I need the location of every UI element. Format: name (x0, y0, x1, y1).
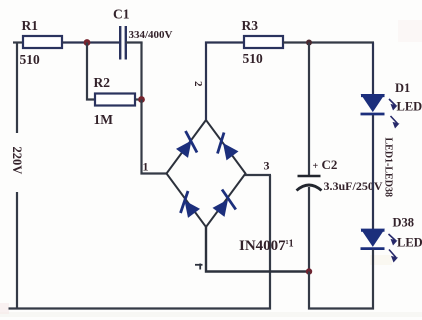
svg-text:3: 3 (264, 159, 270, 173)
svg-text:+: + (313, 161, 319, 172)
node label 2 (rotated, bridge DC+ node) (192, 81, 204, 87)
label C1 (113, 7, 130, 22)
polarity + mark (C2) (313, 161, 319, 172)
svg-text:220V: 220V (10, 147, 24, 175)
svg-text:1M: 1M (94, 112, 114, 127)
junction dot node D (DC-/C2/LED return) (306, 268, 312, 274)
wire: R1 right lead to C1 (62, 41, 120, 43)
wire: left AC lead into R1 (13, 41, 23, 43)
label R1 (22, 18, 39, 33)
label R3 (242, 18, 259, 33)
label D1 (395, 81, 410, 95)
svg-text:D38: D38 (393, 216, 415, 230)
label C2 (322, 157, 338, 172)
wire: node A down to R2 left lead (87, 43, 95, 100)
net label LED1-LED38 (rotated) (383, 138, 394, 197)
LED light arrow 1 (D38) (389, 234, 397, 244)
wire: LED branch down to D1 anode (372, 43, 374, 96)
wire: node B down to bridge node 1 (142, 100, 167, 174)
value 510 (R3) (243, 51, 264, 66)
junction dot node C (R3/C2/LED) (306, 40, 312, 46)
label LED (D1) (397, 100, 422, 114)
resistor R2 (95, 94, 135, 106)
wire: bridge bottom node down and right (DC-) (206, 227, 309, 272)
node label 3 (bridge AC input) (264, 159, 270, 173)
wire: D38 cathode down to bottom return (372, 250, 374, 310)
capacitor C1 (120, 26, 126, 60)
wire: R2 right lead to junction (135, 98, 142, 100)
svg-text:510: 510 (243, 51, 264, 66)
wire: R3 right lead to LED branch corner (283, 41, 374, 43)
LED light arrow 2 (D38) (389, 250, 397, 262)
diode D-BL of bridge (points to node 1) (181, 191, 201, 218)
LED light arrow 1 (D1) (389, 99, 396, 109)
LED D38 (361, 230, 385, 249)
capacitor C2 (polarized) (297, 176, 322, 191)
svg-text:R3: R3 (242, 18, 259, 33)
wire: left AC line down from R1 (top part) (16, 43, 18, 134)
resistor R3 (244, 36, 283, 48)
svg-text:LED: LED (397, 236, 422, 250)
junction dot node B (R2/C1 branch) (138, 96, 145, 103)
wire: node C down to C2 top plate (308, 43, 310, 177)
bridge rectifier outline (diamond) (167, 120, 246, 227)
diode D-TL of bridge (points to top node) (176, 131, 197, 158)
svg-text:IN4007¹1: IN4007¹1 (239, 238, 294, 254)
svg-text:C1: C1 (113, 7, 130, 22)
label D38 (393, 216, 415, 230)
wire: bridge node 3 to vertical return (245, 174, 271, 176)
svg-text:LED: LED (397, 100, 422, 114)
svg-text:510: 510 (20, 52, 41, 67)
svg-text:R2: R2 (94, 75, 111, 90)
resistor R1 (23, 36, 62, 48)
svg-text:2: 2 (192, 81, 204, 87)
svg-text:1: 1 (143, 160, 149, 174)
svg-text:334/400V: 334/400V (129, 29, 173, 41)
value 3.3uF/250V (C2) (324, 179, 383, 193)
label R2 (94, 75, 111, 90)
wire: node D down to LED return (309, 272, 374, 309)
wire: bridge top node up and over to R3 (206, 43, 244, 121)
node label 1 (bridge AC input) (143, 160, 149, 174)
wire: vertical branch C1 down to R2 junction (140, 43, 142, 101)
label LED (D38) (397, 236, 422, 250)
junction dot node A (R1/C1/R2) (84, 39, 91, 46)
value 334/400V (C1) (129, 29, 173, 41)
wire: left AC line down to bottom (lower part) (16, 192, 18, 310)
svg-text:D1: D1 (395, 81, 410, 95)
LED light arrow 2 (D1) (391, 116, 399, 127)
diode D-BR of bridge (points to node 3) (213, 190, 236, 217)
diode D-TR of bridge (points to top node) (218, 133, 239, 161)
net label 220V (rotated) (10, 147, 24, 175)
value 510 (R1) (20, 52, 41, 67)
wire: D1 cathode down to D38 anode (372, 115, 374, 230)
svg-text:C2: C2 (322, 157, 338, 172)
LED D1 (361, 95, 385, 114)
part number IN4007 (bridge diodes) (239, 238, 294, 254)
svg-text:R1: R1 (22, 18, 39, 33)
wire: C1 right plate to vertical branch (126, 41, 143, 43)
node mark + (bridge DC- terminal) (195, 264, 203, 270)
wire: bottom AC return to bridge node 3 branch (9, 175, 271, 309)
wire: C2 bottom lead down to DC- junction (308, 187, 310, 272)
svg-text:LED1-LED38: LED1-LED38 (383, 138, 394, 197)
value 1M (R2) (94, 112, 114, 127)
